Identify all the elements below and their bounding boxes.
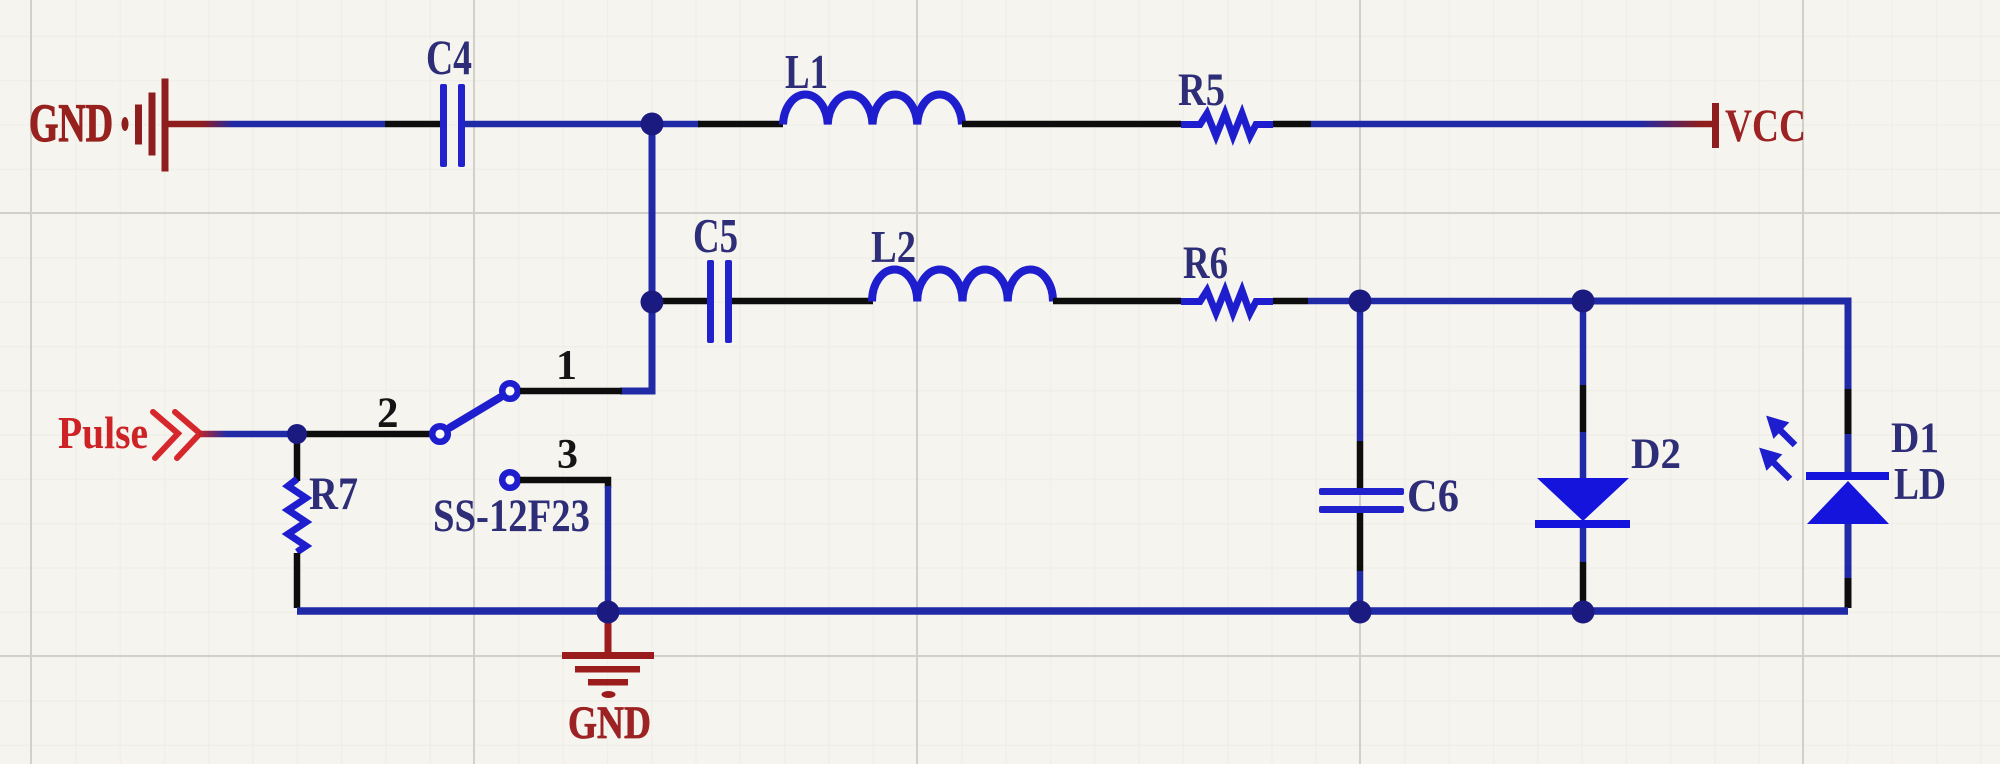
wire below D1: [1845, 524, 1852, 578]
wire C5 to L2: [732, 298, 873, 305]
node C junction: [1349, 290, 1372, 313]
wire node C to node D: [1360, 298, 1583, 305]
node A junction: [641, 113, 664, 136]
svg-text:1: 1: [556, 343, 577, 389]
svg-text:2: 2: [377, 390, 399, 437]
wire pin segment after R6: [1273, 298, 1308, 305]
wire trunk node A down to switch corner: [620, 124, 652, 391]
power port GND (top left): [122, 79, 169, 172]
svg-text:SS-12F23: SS-12F23: [433, 490, 590, 542]
wire pin segment above D1: [1845, 389, 1852, 434]
node H junction (D2 bottom): [1572, 601, 1595, 624]
svg-text:LD: LD: [1894, 458, 1946, 509]
wire below D2: [1580, 528, 1587, 562]
wire node D down to D2: [1580, 301, 1587, 385]
wire pin 3 drop to ground rail: [605, 486, 612, 608]
node F junction (GND tap): [597, 601, 620, 624]
wire node A stub: [652, 121, 700, 128]
laser diode D1: [1806, 472, 1889, 524]
node B junction: [641, 291, 664, 314]
switch SW pin 3 terminal: [502, 472, 518, 488]
ground symbol GND (bottom): [562, 620, 654, 698]
wire node B to C5: [652, 298, 708, 305]
svg-text:R6: R6: [1183, 237, 1228, 289]
switch lever: [450, 398, 500, 428]
wire pin segment after R5: [1273, 121, 1311, 128]
port Pulse chevron: [153, 412, 200, 458]
wire node D to right corner: [1583, 301, 1848, 389]
wire L2 to R6: [1053, 298, 1181, 305]
power port VCC: [1712, 103, 1719, 148]
resistor R7: [288, 479, 306, 552]
wire pin segment below D1: [1845, 578, 1852, 608]
svg-text:D2: D2: [1631, 431, 1681, 478]
wire pin segment above C6: [1357, 441, 1364, 488]
wire switch pin 3 corner: [520, 480, 608, 488]
svg-text:C4: C4: [426, 29, 472, 85]
switch SW pin 1 terminal: [502, 383, 518, 399]
wire Pulse to node E: [199, 431, 292, 438]
laser arrow 1 of D1: [1768, 418, 1795, 446]
node D junction: [1572, 290, 1595, 313]
node E junction: [287, 424, 307, 444]
wire node E to switch pin 2: [297, 431, 431, 438]
wire Pulse node down to R7: [294, 440, 301, 481]
wire node C down to C6: [1357, 301, 1364, 441]
inductor L1: [783, 94, 962, 124]
wire pin segment below C6: [1357, 513, 1364, 571]
resistor R5: [1181, 114, 1273, 137]
svg-text:3: 3: [557, 432, 578, 478]
wire pin segment above D2: [1580, 385, 1587, 432]
wire switch pin 1 to trunk: [520, 388, 622, 395]
wire C4 to node A: [465, 121, 646, 128]
wire node A to L1: [698, 121, 783, 128]
wire C6 to bottom rail: [1357, 571, 1364, 608]
svg-text:L2: L2: [871, 222, 916, 272]
wire GND to C4 (red to blue): [168, 121, 385, 128]
svg-text:R5: R5: [1178, 64, 1225, 116]
node G junction (C6 bottom): [1349, 601, 1372, 624]
bottom ground rail: [297, 607, 1848, 615]
capacitor C4: [440, 84, 465, 167]
diode D2: [1535, 478, 1630, 528]
resistor R6: [1181, 291, 1273, 314]
wire pin segment below D2: [1580, 562, 1587, 602]
wire R6 to node C: [1308, 298, 1360, 305]
svg-text:VCC: VCC: [1725, 100, 1806, 152]
svg-text:GND: GND: [29, 93, 113, 153]
capacitor C5: [707, 260, 732, 343]
wire L1 to R5: [962, 121, 1181, 128]
wire R5 to VCC (blue to red): [1311, 121, 1712, 128]
wire into D2 anode: [1580, 432, 1587, 478]
svg-text:L1: L1: [785, 44, 828, 99]
wire R7 to bottom rail: [294, 553, 301, 608]
svg-text:C5: C5: [693, 208, 738, 263]
switch SW pin 2 terminal: [432, 426, 448, 442]
wire pin segment into C4: [385, 121, 441, 128]
laser arrow 2 of D1: [1761, 450, 1790, 480]
inductor L2: [872, 269, 1053, 301]
wire into D1 cathode: [1845, 434, 1852, 474]
capacitor C6: [1319, 488, 1404, 513]
svg-text:GND: GND: [568, 697, 651, 749]
svg-text:D1: D1: [1891, 415, 1939, 462]
svg-text:Pulse: Pulse: [58, 407, 148, 458]
svg-text:C6: C6: [1407, 470, 1459, 522]
svg-text:R7: R7: [309, 468, 358, 520]
